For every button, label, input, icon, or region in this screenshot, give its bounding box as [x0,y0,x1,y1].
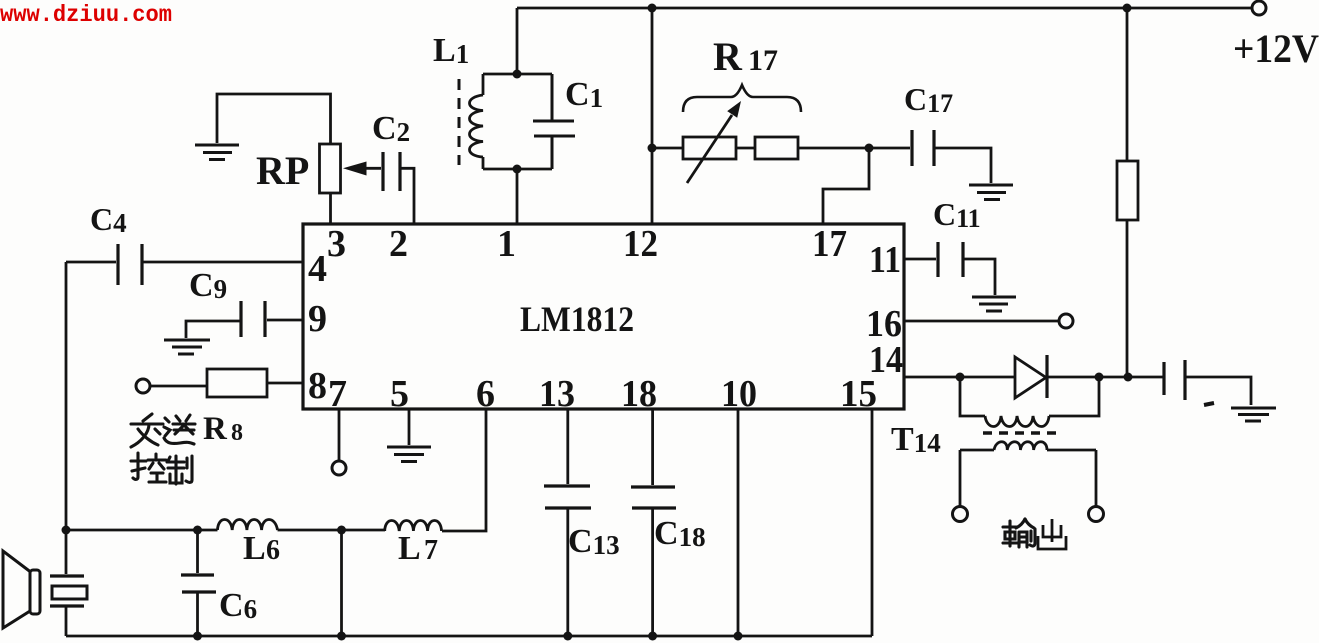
RP wiper arrow [343,162,381,176]
wire pin 5 [408,409,411,445]
capacitor C11 [904,242,995,295]
wire top +12V rail [517,7,1259,10]
node rail C13 [563,632,572,641]
wire tank top to rail [516,8,519,74]
svg-text:L: L [398,530,421,567]
wire left bus to L6 [66,529,218,532]
svg-text:9: 9 [308,298,327,340]
wire pin 16 [904,320,1059,323]
ground C17 [969,185,1013,200]
potentiometer RP [320,144,341,225]
wire pin 7 [338,409,341,461]
控制 label [131,453,192,484]
svg-text:RP: RP [256,148,309,193]
wire left bus C4 down [65,262,68,530]
svg-text:7: 7 [424,535,438,566]
node R17 left [648,144,657,153]
capacitor C13 [544,409,591,636]
node rail pin12 [648,4,657,13]
wire tank top bar [483,73,552,76]
输出 label [1003,519,1035,547]
wire pin 12 to rail [651,8,654,225]
resistor R8 [136,369,303,397]
svg-text:LM1812: LM1812 [520,299,634,339]
svg-text:R: R [203,411,228,447]
transformer T14 secondary [960,442,1096,507]
ground C11 [972,297,1016,311]
svg-text:6: 6 [266,535,280,566]
svg-text:13: 13 [539,373,575,415]
inductor L1 [470,74,484,169]
svg-text:11: 11 [869,239,901,281]
svg-text:6: 6 [476,373,495,415]
发送 label [131,414,195,447]
ultrasonic transducer crystal [50,530,87,636]
svg-text:L: L [243,530,266,567]
svg-text:8: 8 [231,420,243,446]
node tank bottom [513,165,522,174]
pin 7 terminal [332,461,346,475]
diode D1 [1015,355,1047,398]
svg-text:17: 17 [812,223,847,265]
speaker horn [3,551,40,628]
svg-text:+12V: +12V [1233,26,1319,71]
bottom rail [66,635,872,638]
ground C9 [164,340,210,354]
svg-text:3: 3 [327,223,346,265]
resistor on +12V branch [1117,8,1138,377]
capacitor C1 [533,74,575,169]
svg-text:12: 12 [623,223,658,265]
svg-text:2: 2 [389,223,408,265]
transformer T14 primary [960,377,1099,427]
node diode cathode [1095,373,1104,382]
ground RP [195,145,239,160]
svg-text:R: R [713,34,743,79]
capacitor C4 [66,244,303,285]
svg-text:10: 10 [721,373,757,415]
T14 core dashed lines [983,431,1056,434]
wire pin 6 down to L7 [442,409,486,531]
capacitor C17 [869,130,991,183]
node rail pin10 [734,632,743,641]
wire tank bottom bar [483,168,552,171]
node R17 right [865,144,874,153]
node C6 tap [193,526,202,535]
ground pin 5 [387,447,431,462]
node +12V branch join [1124,373,1133,382]
output terminal left [953,507,968,522]
wire L6 to L7 [278,529,386,532]
capacitor output coupling [1164,360,1251,405]
variable resistor R17 [652,101,869,183]
svg-text:www.dziuu.com: www.dziuu.com [0,2,172,28]
node tank top [513,70,522,79]
wire tank bottom to pin 1 [516,169,519,225]
wire R17 node to pin 17 [823,148,869,225]
wire pin 10 [737,409,740,636]
IC U1 LM1812 body [303,224,904,409]
wire tap to bottom rail [340,530,343,636]
svg-text:8: 8 [308,365,327,407]
capacitor C9 [186,301,303,338]
svg-text:15: 15 [840,373,877,415]
node rail C18 [648,632,657,641]
wire pin 15 [871,409,874,636]
svg-text:7: 7 [328,373,347,415]
node L6-L7 tap [337,526,346,535]
wire diode cathode to cap [1047,376,1163,379]
node diode anode [956,373,965,382]
svg-text:5: 5 [390,373,409,415]
node rail +12V branch [1123,4,1132,13]
svg-text:1: 1 [497,223,516,265]
svg-text:4: 4 [308,248,327,290]
capacitor C18 [631,409,676,636]
capacitor C6 [181,530,216,636]
node rail tap [337,632,346,641]
polarity minus mark [1204,403,1214,405]
wire pin 14 [904,376,1015,379]
R17 brace [683,85,801,112]
inductor L7 [385,521,442,532]
node left bus [62,526,71,535]
L1 adjustable core dashed line [458,79,461,165]
svg-text:18: 18 [621,373,657,415]
wire RP top to ground [217,94,331,145]
output terminal right [1089,507,1104,522]
svg-text:17: 17 [748,44,778,77]
+12V terminal [1252,1,1266,15]
pin 16 terminal [1059,314,1073,328]
ground output [1231,408,1276,421]
capacitor C2 [383,152,414,225]
node rail C6 [193,632,202,641]
inductor L6 [218,520,278,531]
